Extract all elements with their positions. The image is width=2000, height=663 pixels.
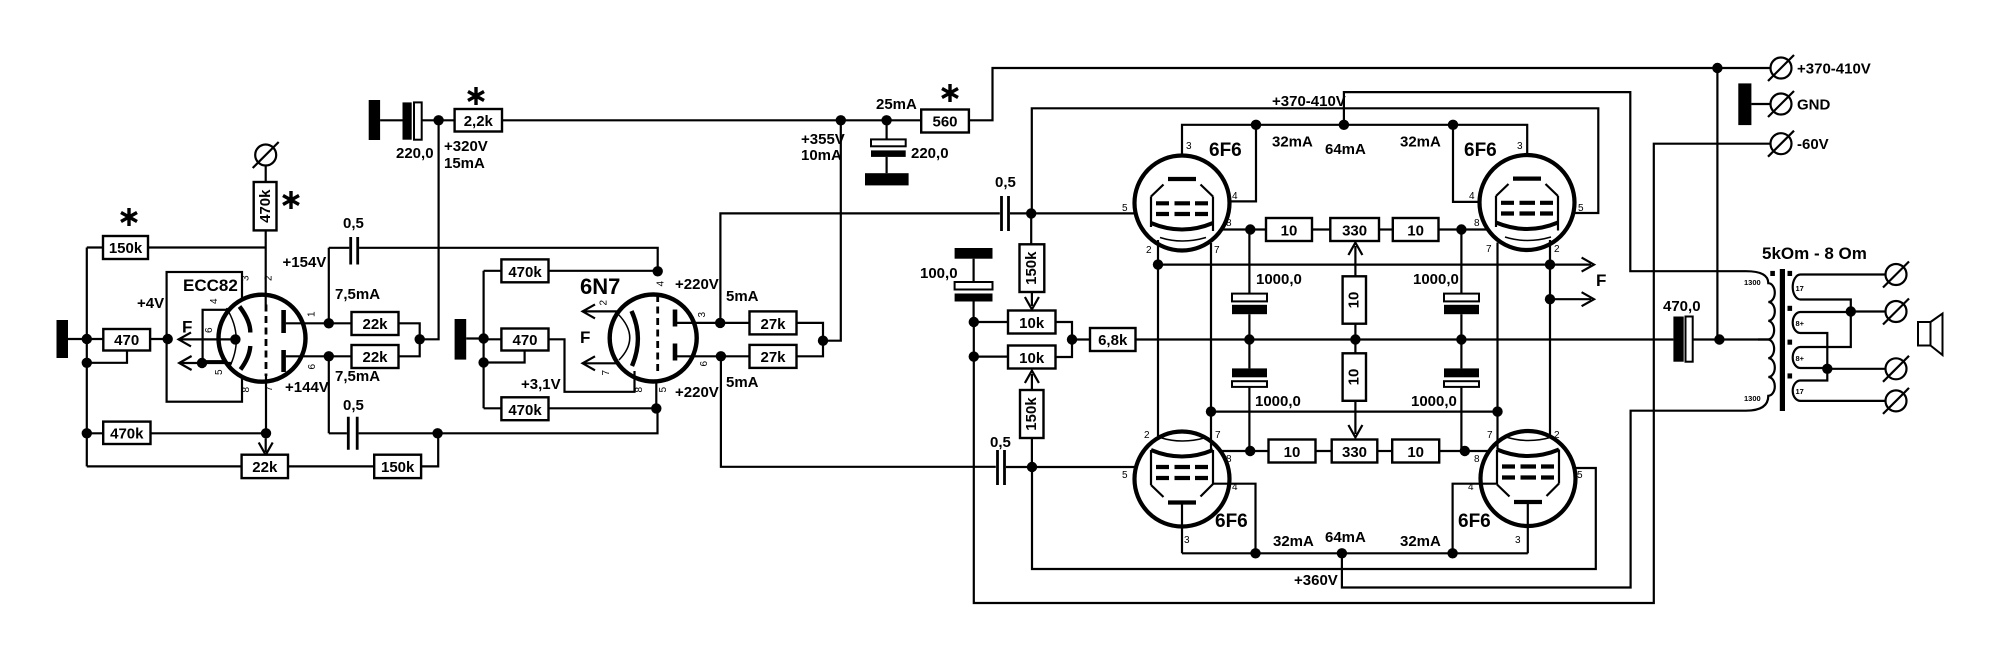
ECC82 outer box <box>167 272 242 402</box>
wire bottom cap to 6N7 grid2 <box>359 408 658 433</box>
svg-text:10k: 10k <box>1019 315 1045 332</box>
wire bottom row left <box>87 465 242 467</box>
svg-text:1000,0: 1000,0 <box>1256 271 1302 288</box>
OPT secondary winding S3 <box>1793 347 1806 368</box>
wire 6N7 plate6 to node <box>677 355 750 357</box>
node (6N7 grid2) <box>651 403 661 413</box>
wire column to bottom cap <box>329 432 347 434</box>
svg-text:5: 5 <box>1122 470 1128 481</box>
svg-text:2: 2 <box>1554 244 1560 255</box>
6F6 UL side rails <box>1151 197 1213 232</box>
svg-text:17: 17 <box>1796 387 1804 396</box>
6F6 UR cathode thin arc <box>1505 237 1551 241</box>
wire 330 to 10 <box>1379 228 1393 230</box>
svg-text:6,8k: 6,8k <box>1098 332 1128 349</box>
svg-text:7: 7 <box>1487 430 1493 441</box>
node (upper right cap) <box>1456 224 1466 234</box>
wire S1 top to terminal <box>1806 273 1886 275</box>
svg-text:27k: 27k <box>760 349 786 366</box>
capacitor 470,0 (coupling to OPT) <box>1673 317 1692 362</box>
wire 10 to right 6F6 pin8 (lower) <box>1439 450 1497 452</box>
wire 6N7 input column <box>483 271 485 409</box>
resistor 27k (upper) <box>750 311 797 334</box>
svg-text:5mA: 5mA <box>726 288 759 305</box>
svg-text:470k: 470k <box>110 426 144 443</box>
svg-text:6F6: 6F6 <box>1458 511 1491 532</box>
svg-text:8: 8 <box>1226 218 1232 229</box>
capacitor 0,5 (coupling top) <box>351 237 358 265</box>
node (bias lower) <box>969 351 979 361</box>
svg-text:8+: 8+ <box>1796 319 1805 328</box>
6F6 LL grid dashes row2 <box>1156 476 1208 480</box>
wire node to terminal 3 <box>1827 368 1885 370</box>
node (upper left cap) <box>1245 224 1255 234</box>
asterisk (470k) <box>283 191 299 209</box>
svg-text:22k: 22k <box>362 349 388 366</box>
wire splitter column lower (to bottom 0,5) <box>721 356 996 467</box>
svg-text:470k: 470k <box>508 402 542 419</box>
wire pin2 column right <box>1549 240 1551 436</box>
wire common to +355V column <box>823 120 841 340</box>
tube 6F6 lower-left envelope <box>1135 432 1230 527</box>
svg-text:6: 6 <box>204 327 215 333</box>
svg-text:4: 4 <box>656 281 667 287</box>
wire cap to node <box>422 119 455 121</box>
arrow (6N7 grid pin7 to F) <box>583 356 618 370</box>
wire node to 470 <box>87 338 104 340</box>
svg-text:470: 470 <box>114 332 139 349</box>
svg-text:10mA: 10mA <box>801 147 842 164</box>
node (center tap) <box>1714 334 1724 344</box>
wire upper grid node to left 6F6 pin5 <box>1031 212 1151 214</box>
wire pin7 link row <box>1211 411 1498 413</box>
wire cap to 6N7 grid1 <box>359 248 658 271</box>
wire 470k upper to grid1 node <box>549 270 658 272</box>
tube ECC82 envelope <box>219 295 306 382</box>
svg-text:7: 7 <box>1486 244 1492 255</box>
6N7 plate bar upper <box>673 310 678 327</box>
svg-text:7,5mA: 7,5mA <box>335 368 380 385</box>
node (22k junction) <box>415 334 425 344</box>
node (secondary upper) <box>1846 306 1856 316</box>
resistor 6,8k <box>1090 328 1136 351</box>
wire pin7 column left (upper tube to link row) <box>1210 243 1212 449</box>
svg-text:GND: GND <box>1797 97 1831 114</box>
resistor 150k (input) <box>103 236 148 259</box>
svg-text:10: 10 <box>1284 444 1301 461</box>
6F6 LR cathode thin arc <box>1506 437 1552 441</box>
wire 150k up to coupling node <box>421 433 438 466</box>
node (lower left cap) <box>1245 446 1255 456</box>
wire column to 470 <box>484 338 502 340</box>
6F6 UR grid dashes row2 <box>1501 211 1553 215</box>
arrow (vertical 10 to 330, down) <box>1348 401 1362 438</box>
wire node to ECC82 grid pin2 <box>265 248 267 305</box>
wire left column <box>86 248 88 467</box>
svg-text:0,5: 0,5 <box>995 174 1016 191</box>
6F6 UL cathode thick arc <box>1151 223 1213 230</box>
input jack 2 (chassis) <box>455 319 467 360</box>
resistor 10 (vertical lower) <box>1343 353 1366 401</box>
arrow (F feedback lower) <box>1550 292 1594 306</box>
node (pin7 left) <box>1206 406 1216 416</box>
6N7 cathode thick arc <box>632 311 638 366</box>
wire mid to 10 vert lower <box>1354 340 1356 354</box>
svg-text:F: F <box>580 328 590 347</box>
wire 470k to node <box>265 230 267 248</box>
6F6 UR grid dashes row1 <box>1501 201 1553 205</box>
wire 22k-1 to junction <box>399 323 420 339</box>
svg-text:+355V: +355V <box>801 131 845 148</box>
polarity dot (sec 4) <box>1788 373 1793 378</box>
terminal (grid bias top) <box>253 142 279 168</box>
wire 150k feed <box>87 246 103 248</box>
node (27k common) <box>818 336 828 346</box>
svg-text:0,5: 0,5 <box>990 434 1011 451</box>
ECC82 grid (dashed) <box>265 305 268 377</box>
capacitor 1000,0 (lower left) <box>1232 340 1267 452</box>
svg-text:10k: 10k <box>1019 350 1045 367</box>
svg-text:6F6: 6F6 <box>1215 511 1248 532</box>
svg-text:ECC82: ECC82 <box>183 276 238 295</box>
resistor 470 (grid stopper) <box>103 329 150 351</box>
OPT primary upper half <box>1746 271 1775 339</box>
6F6 LR plate bar <box>1514 500 1542 504</box>
resistor 150k (upper, vertical) <box>1020 244 1045 292</box>
arrow (150k to 10k lower) <box>1025 371 1039 390</box>
svg-text:150k: 150k <box>381 459 415 476</box>
resistor 10k (upper) <box>1008 311 1056 334</box>
wire pin7 column right <box>1496 243 1498 450</box>
wire left screen riser <box>1212 125 1257 202</box>
node (filament lower) <box>197 358 207 368</box>
wire 27k-1 to common <box>797 323 824 341</box>
resistor 150k (lower, vertical) <box>1020 390 1044 438</box>
svg-text:1300: 1300 <box>1744 394 1761 403</box>
arrow (filament F lower) <box>179 356 232 370</box>
svg-text:1000,0: 1000,0 <box>1411 393 1457 410</box>
svg-text:+3,1V: +3,1V <box>521 376 561 393</box>
polarity dot (sec 1) <box>1788 271 1793 276</box>
tube 6F6 upper-right envelope <box>1480 155 1575 250</box>
wire lower plate rail <box>1182 552 1528 554</box>
wire rail 2,2k to 560 <box>502 119 921 121</box>
svg-text:0,5: 0,5 <box>343 397 364 414</box>
node (rail left) <box>1250 548 1260 558</box>
6N7 cathode thin arc <box>618 314 630 360</box>
wire cap to node <box>1010 212 1031 214</box>
6F6 LR grid dashes row2 <box>1502 475 1554 479</box>
wire ECC82 plate1 to 22k <box>286 322 352 324</box>
svg-text:2: 2 <box>1146 245 1152 256</box>
capacitor 100,0 (electrolytic) <box>955 259 993 322</box>
wire 470 to box node <box>150 338 168 340</box>
wire +360V to OPT primary bottom <box>1342 411 1746 588</box>
svg-text:150k: 150k <box>1023 251 1040 285</box>
svg-text:220,0: 220,0 <box>396 145 434 162</box>
svg-text:1: 1 <box>307 311 318 317</box>
node (cathode junction) <box>230 334 240 344</box>
terminal (speaker 1) <box>1883 262 1909 288</box>
ECC82 cathode thick arc upper <box>240 307 251 333</box>
svg-text:330: 330 <box>1342 444 1367 461</box>
resistor 470k (6N7 lower) <box>501 397 548 420</box>
OPT secondary winding S1 <box>1793 275 1806 300</box>
chassis ground (100,0) <box>955 248 993 259</box>
arrow (150k to 10k upper) <box>1025 292 1039 309</box>
6F6 LL screen hat <box>1151 484 1213 497</box>
node (6N7 input) <box>478 333 488 343</box>
node (6N7 grid leak) <box>478 357 488 367</box>
6F6 UR cathode thick arc <box>1496 223 1558 230</box>
arrow (to 22k cathode) <box>259 439 273 455</box>
svg-text:2: 2 <box>1554 430 1560 441</box>
wire S2 top to node/terminal <box>1806 310 1886 313</box>
node (grid leak) <box>82 358 92 368</box>
6F6 LL side rails <box>1151 450 1213 485</box>
resistor 470k (vertical, grid) <box>254 182 277 230</box>
wire left 6F6 pin8 to node <box>1213 228 1266 230</box>
svg-text:6F6: 6F6 <box>1209 140 1242 161</box>
6N7 grid (dashed) <box>656 295 659 374</box>
svg-text:4: 4 <box>1232 191 1238 202</box>
svg-text:5: 5 <box>214 369 225 375</box>
svg-text:32mA: 32mA <box>1273 533 1314 550</box>
wire 6N7 plate3 to node <box>677 322 750 324</box>
node (bottom coupling/150k) <box>432 428 442 438</box>
svg-text:10: 10 <box>1407 223 1424 240</box>
node (mid left) <box>1244 334 1254 344</box>
resistor 22k (cathode) <box>242 455 288 478</box>
chassis ground (GND terminal) <box>1738 83 1751 125</box>
svg-text:5mA: 5mA <box>726 374 759 391</box>
wire bias column <box>974 144 1771 603</box>
svg-text:330: 330 <box>1342 223 1367 240</box>
asterisk (2,2k) <box>468 87 484 105</box>
wire 10 vert to mid <box>1354 324 1356 340</box>
OPT primary lower half <box>1746 340 1775 411</box>
svg-text:2: 2 <box>599 300 610 306</box>
wire 470,0 to center tap <box>1693 338 1758 340</box>
6F6 LL grid dashes row1 <box>1156 465 1208 469</box>
terminal (speaker 4) <box>1883 388 1909 414</box>
svg-text:2: 2 <box>1144 430 1150 441</box>
svg-text:32mA: 32mA <box>1400 533 1441 550</box>
wire column to 470k <box>87 432 103 434</box>
arrow (F feedback upper) <box>1550 258 1594 272</box>
6F6 LL plate bar <box>1168 500 1196 504</box>
node (64mA riser) <box>1339 120 1349 130</box>
6N7 plate bar lower <box>673 344 678 361</box>
node (pin7 right) <box>1492 406 1502 416</box>
svg-text:8: 8 <box>1474 218 1480 229</box>
tube 6N7 envelope <box>610 295 697 382</box>
resistor 470k (input shunt) <box>103 422 150 444</box>
terminal GND <box>1768 91 1794 117</box>
node (secondary lower) <box>1822 364 1832 374</box>
arrow (filament F upper) <box>179 332 236 346</box>
svg-text:7: 7 <box>1214 245 1220 256</box>
node (pin2 left / F row) <box>1153 259 1163 269</box>
node (B+ 320V) <box>433 115 443 125</box>
wire splitter column upper (to top 0,5) <box>720 213 999 323</box>
svg-text:F: F <box>1596 271 1606 290</box>
node (ECC82 bottom) <box>261 428 271 438</box>
wire S2 bottom link <box>1806 333 1827 381</box>
6F6 UR side rails <box>1496 196 1558 231</box>
svg-text:4: 4 <box>1469 191 1475 202</box>
svg-text:+220V: +220V <box>675 384 719 401</box>
wire jack to column <box>466 337 483 339</box>
svg-text:7,5mA: 7,5mA <box>335 286 380 303</box>
wire right screen riser <box>1453 125 1498 202</box>
svg-text:+4V: +4V <box>137 295 164 312</box>
capacitor 1000,0 (lower right) <box>1444 340 1479 452</box>
wire LR pin3 <box>1527 502 1529 553</box>
svg-text:150k: 150k <box>1023 397 1040 431</box>
tube 6F6 upper-left envelope <box>1135 156 1230 251</box>
wire column to 470k upper <box>484 270 502 272</box>
resistor 22k (plate load 1) <box>352 312 399 335</box>
svg-text:3: 3 <box>697 312 708 318</box>
asterisk (150k) <box>121 208 137 226</box>
resistor 2,2k <box>455 109 502 132</box>
svg-text:3: 3 <box>1515 535 1521 546</box>
svg-text:+154V: +154V <box>283 254 327 271</box>
wire node to 150k <box>1030 213 1032 244</box>
wire LL pin4 riser <box>1213 484 1256 554</box>
capacitor 0,5 (lower grids) <box>998 450 1005 485</box>
wire S1 bottom link <box>1806 300 1851 348</box>
wire 330 to 10 (lower) <box>1377 450 1392 452</box>
node (lower grid) <box>1027 462 1037 472</box>
wire 10k-2 to junction <box>1056 340 1073 358</box>
svg-text:470k: 470k <box>257 189 274 223</box>
speaker icon <box>1918 314 1943 356</box>
svg-text:470k: 470k <box>508 264 542 281</box>
node (lower right cap) <box>1460 446 1470 456</box>
polarity dot (sec 3) <box>1788 340 1793 345</box>
6F6 LR cathode thick arc <box>1497 450 1559 457</box>
6F6 UL screen hat <box>1151 185 1213 197</box>
wire lower grid node to left 6F6 pin5 <box>1032 466 1151 468</box>
svg-text:2: 2 <box>264 275 275 281</box>
svg-text:3: 3 <box>1186 141 1192 152</box>
node (plate2 / coupling column) <box>324 351 334 361</box>
wire mid line (6,8k to 470,0) <box>1136 338 1674 340</box>
capacitor 0,5 (coupling bottom) <box>348 417 357 450</box>
capacitor 220,0 (right electrolytic) <box>865 120 909 185</box>
ECC82 cathode thin arc <box>227 308 237 369</box>
ECC82 cathode thick arc lower <box>241 346 251 370</box>
resistor 10 (vertical upper) <box>1343 276 1366 323</box>
6F6 UL grid dashes row1 <box>1156 201 1208 205</box>
capacitor 1000,0 (upper right) <box>1444 230 1479 340</box>
svg-text:32mA: 32mA <box>1272 134 1313 151</box>
svg-text:10: 10 <box>1345 369 1362 386</box>
terminal (speaker 2) <box>1883 299 1909 325</box>
wire 560 to +370 rail <box>969 68 1771 120</box>
ECC82 filament inner box <box>203 310 232 361</box>
svg-text:10: 10 <box>1407 444 1424 461</box>
6F6 LR side rails <box>1497 450 1559 485</box>
resistor 470 (6N7 cathode feed) <box>501 329 548 351</box>
node (left screen riser) <box>1251 120 1261 130</box>
6F6 LL cathode thick arc <box>1151 450 1213 457</box>
arrow (6N7 grid pin2 to F) <box>583 304 618 318</box>
wire 27k-2 to common <box>797 341 824 357</box>
svg-text:10: 10 <box>1281 223 1298 240</box>
6F6 UR screen hat <box>1496 184 1558 196</box>
asterisk (560) <box>942 84 958 102</box>
wire 150k to +154V node <box>148 246 266 248</box>
svg-text:+370-410V: +370-410V <box>1797 61 1871 78</box>
svg-text:+220V: +220V <box>675 276 719 293</box>
wire bias to 10k-1 <box>974 321 1008 323</box>
node (rail 64mA) <box>1337 548 1347 558</box>
node (+370 rail / OPT feed) <box>1712 63 1722 73</box>
resistor 150k (bottom) <box>374 455 421 478</box>
svg-text:64mA: 64mA <box>1325 141 1366 158</box>
node (mid center) <box>1350 334 1360 344</box>
node (plate3) <box>715 318 725 328</box>
wire S3 bottom to node <box>1806 367 1827 369</box>
resistor 27k (lower) <box>750 345 797 368</box>
6F6 LR screen hat <box>1497 484 1559 497</box>
wire column to 470k lower <box>484 407 502 409</box>
6F6 UL grid dashes row2 <box>1156 212 1208 216</box>
svg-text:64mA: 64mA <box>1325 529 1366 546</box>
svg-text:8: 8 <box>1474 454 1480 465</box>
svg-text:560: 560 <box>932 114 957 131</box>
node (25mA / 220,0) <box>881 115 891 125</box>
wire bias to 10k-2 <box>974 356 1008 358</box>
wire LL pin3 to rail <box>1181 503 1183 554</box>
svg-text:25mA: 25mA <box>876 96 917 113</box>
OPT secondary winding S4 <box>1793 381 1806 401</box>
wire 150k lower to bottom grid node <box>1031 438 1033 467</box>
wire F row <box>1158 264 1550 266</box>
6F6 UL cathode thin arc <box>1160 238 1206 242</box>
arrow (330 to vertical 10, up) <box>1348 243 1362 277</box>
wire 470k to ECC82 bottom node <box>151 432 267 434</box>
node (10k junction) <box>1067 334 1077 344</box>
ECC82 plate bar upper <box>281 310 286 333</box>
resistor 560 <box>921 110 969 133</box>
wire terminal to 470k <box>265 166 267 183</box>
wire column to cap <box>329 247 350 249</box>
polarity dot (sec 2) <box>1788 306 1793 311</box>
terminal (speaker 3) <box>1883 356 1909 382</box>
tube 6F6 lower-right envelope <box>1481 431 1576 526</box>
wire B+ drop to center tap <box>1716 68 1718 340</box>
svg-text:7: 7 <box>601 370 612 376</box>
resistor 10k (lower) <box>1008 346 1056 369</box>
OPT secondary winding S2 <box>1793 312 1806 333</box>
wire S4 bottom to terminal <box>1806 400 1886 402</box>
svg-text:32mA: 32mA <box>1400 134 1441 151</box>
svg-text:+144V: +144V <box>285 379 329 396</box>
node (mid right) <box>1456 334 1466 344</box>
wire gnd to terminal <box>1751 103 1770 105</box>
wire gnd to cap <box>380 119 402 121</box>
svg-text:3: 3 <box>1184 535 1190 546</box>
capacitor 220,0 (left electrolytic) <box>403 102 422 139</box>
6F6 LR grid dashes row1 <box>1502 464 1554 468</box>
svg-text:100,0: 100,0 <box>920 265 958 282</box>
node (bias upper) <box>969 317 979 327</box>
wire ECC82 cathode bottom <box>265 376 267 433</box>
